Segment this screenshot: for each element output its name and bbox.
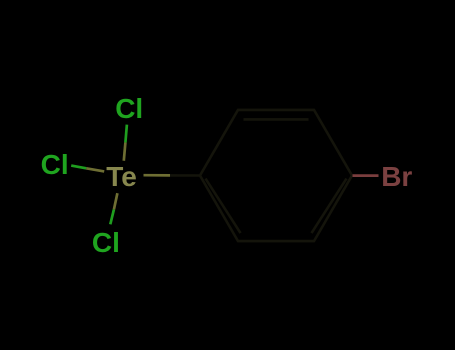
bond Te-Cl(left): olive half xyxy=(86,168,104,171)
benzene ring (very dark carbon skeleton) xyxy=(200,110,352,241)
svg-text:Br: Br xyxy=(381,161,412,192)
bond Te-ring (olive half) xyxy=(144,174,171,177)
svg-text:Te: Te xyxy=(106,161,137,192)
svg-text:Cl: Cl xyxy=(115,93,143,124)
bond Te-Cl(top): green half xyxy=(125,125,127,143)
svg-text:Cl: Cl xyxy=(41,149,69,180)
bond ring-Br (red) xyxy=(353,174,379,177)
bond Te-Cl(bottom): olive half xyxy=(114,193,118,209)
bond Te-Cl(left): green half xyxy=(71,166,86,169)
wire: carbon half of Te-ring bond xyxy=(170,174,200,177)
svg-text:Cl: Cl xyxy=(92,227,120,258)
bond Te-Cl(top): olive half xyxy=(124,143,126,161)
bond Te-Cl(bottom): green half xyxy=(110,210,114,225)
